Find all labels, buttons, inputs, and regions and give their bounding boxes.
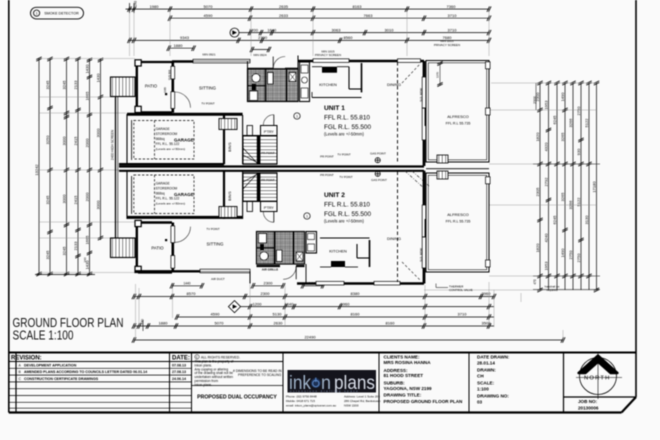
svg-text:DATE DRAWN:: DATE DRAWN:	[477, 355, 510, 360]
dimension line	[89, 59, 91, 275]
svg-text:1200: 1200	[249, 27, 259, 32]
svg-text:DINING: DINING	[387, 82, 401, 87]
dimension line	[66, 59, 68, 275]
svg-text:1980: 1980	[150, 4, 160, 9]
unit1 wet area hatched	[248, 69, 299, 102]
dimension line	[239, 32, 489, 34]
svg-text:3710: 3710	[458, 312, 468, 317]
svg-text:P'TRY: P'TRY	[264, 130, 275, 134]
svg-text:1430: 1430	[95, 73, 100, 83]
svg-text:1640: 1640	[285, 301, 295, 306]
svg-text:3266: 3266	[568, 200, 573, 210]
unit2 alfresco	[426, 173, 489, 272]
svg-text:3245: 3245	[45, 195, 50, 205]
svg-text:GARAGE: GARAGE	[156, 181, 171, 185]
svg-text:MRS ROSINA HANNA: MRS ROSINA HANNA	[384, 360, 432, 365]
svg-text:DRAWN:: DRAWN:	[477, 368, 496, 373]
svg-text:FFL R.L 55.735: FFL R.L 55.735	[446, 220, 471, 224]
svg-text:22490: 22490	[304, 335, 316, 340]
svg-text:2000: 2000	[84, 192, 89, 202]
dimension line	[588, 83, 590, 290]
unit2 entry wall + door	[172, 223, 175, 273]
svg-text:(Levels are +/-50mm): (Levels are +/-50mm)	[156, 202, 186, 206]
svg-text:Mobile: 0418 671 715: Mobile: 0418 671 715	[286, 399, 315, 403]
dimension line	[556, 83, 558, 290]
svg-text:2635: 2635	[279, 4, 289, 9]
svg-text:3245: 3245	[45, 80, 50, 90]
svg-text:FFL R.L. 55.122: FFL R.L. 55.122	[156, 197, 180, 201]
svg-text:CONSTRUCTION CERTIFICATE DRAWI: CONSTRUCTION CERTIFICATE DRAWINGS	[24, 377, 99, 381]
svg-text:2133: 2133	[73, 241, 78, 251]
small dim at alfresco left	[439, 63, 441, 85]
svg-text:TV POINT: TV POINT	[206, 227, 220, 231]
left boundary retaining wall	[115, 97, 117, 238]
svg-text:MIN 0924: MIN 0924	[253, 53, 266, 57]
svg-text:2750: 2750	[568, 250, 573, 260]
section marker bottom	[228, 301, 240, 313]
unit1 kitchen/dining top wall	[298, 60, 424, 62]
svg-text:3710: 3710	[448, 27, 458, 32]
svg-text:8163: 8163	[353, 4, 363, 9]
svg-text:DRAWING TITLE:: DRAWING TITLE:	[384, 393, 422, 398]
svg-text:Address: Level 1 Suite 203: Address: Level 1 Suite 203	[344, 395, 380, 399]
svg-text:5130: 5130	[273, 312, 283, 317]
svg-text:email: inkon_plans@optusnet.co: email: inkon_plans@optusnet.com.au	[286, 403, 336, 407]
svg-text:5960: 5960	[341, 301, 351, 306]
unit1 patio	[138, 61, 172, 63]
svg-text:FGL R.L. 55.500: FGL R.L. 55.500	[324, 211, 371, 218]
svg-text:6245: 6245	[552, 115, 557, 125]
svg-text:BIN/S: BIN/S	[228, 142, 232, 152]
svg-text:1820: 1820	[535, 243, 540, 253]
svg-text:2300: 2300	[261, 291, 271, 296]
svg-text:3130: 3130	[584, 215, 589, 225]
dimension line	[303, 285, 323, 287]
svg-text:3960: 3960	[482, 291, 492, 296]
unit2 patio	[136, 221, 172, 223]
svg-text:24.06.14: 24.06.14	[172, 377, 186, 381]
svg-text:3245: 3245	[61, 80, 66, 90]
svg-text:4320: 4320	[543, 142, 548, 152]
svg-text:3710: 3710	[448, 13, 458, 18]
svg-text:1: 1	[306, 215, 308, 219]
svg-text:UNIT 2: UNIT 2	[324, 192, 345, 199]
dimension line	[539, 83, 541, 290]
svg-text:3266: 3266	[568, 118, 573, 128]
dimension line	[134, 325, 494, 327]
svg-text:DATE:: DATE:	[172, 356, 190, 362]
svg-text:CONTROL VALVE: CONTROL VALVE	[449, 288, 473, 292]
svg-text:668sq: 668sq	[156, 192, 165, 196]
svg-text:5070: 5070	[215, 321, 225, 326]
svg-text:6245: 6245	[552, 215, 557, 225]
svg-text:27.08.13: 27.08.13	[172, 370, 186, 374]
svg-text:286 Chapel Rd, Bankstown: 286 Chapel Rd, Bankstown	[344, 399, 381, 403]
unit1 alfresco	[426, 61, 489, 163]
svg-text:2133: 2133	[73, 80, 78, 90]
svg-text:3000: 3000	[61, 194, 66, 204]
svg-text:FFL R.L. 55.810: FFL R.L. 55.810	[324, 202, 370, 209]
svg-text:SCALE 1:100: SCALE 1:100	[13, 328, 74, 343]
svg-text:1953: 1953	[543, 100, 548, 110]
unit2 wet area hatched	[257, 232, 305, 265]
svg-text:4590: 4590	[211, 312, 221, 317]
svg-text:YAGOONA, NSW 2199: YAGOONA, NSW 2199	[384, 386, 433, 391]
unit1 porch recess + front door	[247, 62, 249, 69]
svg-text:1820: 1820	[535, 132, 540, 142]
svg-text:STOREROOM: STOREROOM	[156, 132, 178, 136]
svg-text:ALFRESCO: ALFRESCO	[447, 114, 469, 119]
svg-text:7663: 7663	[364, 13, 374, 18]
svg-text:CLIENTS NAME:: CLIENTS NAME:	[384, 355, 420, 360]
svg-text:SITTING: SITTING	[199, 86, 217, 91]
svg-text:1:100: 1:100	[477, 387, 489, 392]
unit1 external steps	[111, 77, 136, 97]
unit2 1440 dim	[172, 285, 202, 287]
svg-text:07.08.13: 07.08.13	[172, 363, 186, 367]
dimension line	[169, 47, 194, 49]
svg-text:3010: 3010	[385, 27, 395, 32]
svg-text:SLD. WDW: SLD. WDW	[419, 88, 423, 102]
svg-text:PREFERENCE TO SCALING: PREFERENCE TO SCALING	[238, 373, 282, 377]
unit2 right wall	[423, 171, 426, 284]
svg-text:DINING: DINING	[387, 236, 401, 241]
bottom extension lines	[135, 284, 137, 341]
svg-text:3265: 3265	[560, 132, 565, 142]
svg-text:470: 470	[533, 279, 537, 285]
svg-text:3000: 3000	[95, 128, 100, 138]
svg-text:2300: 2300	[264, 281, 274, 286]
svg-text:SLD. WDW: SLD. WDW	[419, 248, 423, 262]
svg-text:(Levels are +/-50mm): (Levels are +/-50mm)	[324, 132, 365, 137]
svg-text:ALFRESCO: ALFRESCO	[447, 212, 469, 217]
unit2 bins	[242, 171, 244, 219]
svg-text:SCALE:: SCALE:	[477, 381, 495, 386]
svg-text:2415: 2415	[73, 136, 78, 146]
svg-text:930: 930	[576, 148, 581, 155]
dimension line	[596, 83, 598, 290]
svg-text:TV POINT: TV POINT	[337, 153, 351, 157]
svg-text:PRIVACY SCREEN: PRIVACY SCREEN	[434, 43, 460, 47]
svg-text:1665: 1665	[84, 235, 89, 245]
party wall double	[119, 165, 424, 167]
svg-text:240: 240	[83, 257, 87, 262]
unit1 right wall	[423, 61, 426, 166]
dimension line	[77, 59, 79, 275]
dimension line	[100, 59, 102, 241]
svg-text:1953: 1953	[543, 261, 548, 271]
sheet right border	[635, 0, 637, 397]
svg-text:GAS POINT: GAS POINT	[370, 152, 386, 156]
svg-text:2633: 2633	[279, 13, 289, 18]
svg-text:17180: 17180	[591, 181, 596, 193]
dimension line	[126, 8, 490, 10]
svg-text:SUBURB:: SUBURB:	[384, 381, 406, 386]
svg-text:MIN 0921: MIN 0921	[202, 53, 215, 57]
svg-text:1: 1	[296, 115, 298, 119]
dimension line	[580, 83, 582, 290]
svg-text:3250: 3250	[45, 135, 50, 145]
svg-text:1640: 1640	[267, 27, 277, 32]
section marker top	[230, 28, 239, 37]
svg-text:7360: 7360	[447, 4, 457, 9]
unit1 kitchen	[322, 67, 337, 73]
svg-text:P'TRY: P'TRY	[264, 206, 275, 210]
svg-text:2415: 2415	[73, 195, 78, 205]
svg-text:9343: 9343	[180, 35, 190, 40]
smoke detector legend	[31, 7, 84, 19]
unit2 porch + front door	[249, 271, 251, 283]
svg-text:8380: 8380	[351, 291, 361, 296]
svg-text:1085: 1085	[163, 87, 167, 93]
sheet left border	[8, 0, 10, 413]
svg-text:AIR GRILLE: AIR GRILLE	[262, 267, 278, 271]
title block frame	[9, 352, 636, 354]
svg-text:AMENDED PLANS ACCORDING TO COU: AMENDED PLANS ACCORDING TO COUNCILS LETT…	[24, 370, 147, 374]
svg-text:UNIT 1: UNIT 1	[324, 105, 345, 112]
svg-text:8570: 8570	[187, 291, 197, 296]
svg-text:3245: 3245	[45, 250, 50, 260]
dimension line	[239, 306, 494, 308]
svg-text:3063: 3063	[332, 27, 342, 32]
unit1 bins	[242, 115, 244, 164]
unit1 top wall	[172, 60, 250, 62]
svg-text:KITCHEN: KITCHEN	[329, 249, 347, 254]
svg-text:BIN/S: BIN/S	[228, 191, 232, 201]
svg-text:5070: 5070	[204, 4, 214, 9]
svg-text:1430: 1430	[84, 64, 89, 74]
svg-text:NSW 2200: NSW 2200	[344, 403, 359, 407]
svg-text:2300: 2300	[258, 35, 268, 40]
svg-text:20130006: 20130006	[578, 406, 599, 411]
svg-text:2300: 2300	[533, 96, 537, 104]
svg-text:FGL R.L. 55.500: FGL R.L. 55.500	[324, 124, 371, 131]
svg-text:PR POINT: PR POINT	[261, 178, 275, 182]
unit1 wc room	[300, 62, 310, 102]
north arrow	[580, 358, 617, 395]
svg-text:1665: 1665	[84, 91, 89, 101]
svg-text:GAS POINT: GAS POINT	[371, 178, 387, 182]
svg-text:2792: 2792	[543, 177, 548, 187]
dimension line	[170, 17, 489, 19]
svg-text:8160: 8160	[386, 321, 396, 326]
right extension lines	[491, 82, 597, 84]
svg-text:PATIO: PATIO	[145, 84, 158, 89]
unit2 kitchen	[331, 261, 345, 267]
svg-text:2400 HIGH SCREEN: 2400 HIGH SCREEN	[111, 129, 115, 160]
svg-text:DEVELOPMENT APPLICATION: DEVELOPMENT APPLICATION	[24, 363, 77, 367]
dimension line	[572, 83, 574, 290]
svg-text:1200: 1200	[253, 301, 263, 306]
svg-text:STOREROOM: STOREROOM	[156, 186, 178, 190]
dimension line	[548, 83, 550, 290]
dimension line	[134, 339, 563, 341]
svg-text:(Levels are +/-50mm): (Levels are +/-50mm)	[156, 147, 186, 151]
dimension line	[38, 59, 40, 275]
svg-text:1490: 1490	[560, 248, 565, 258]
svg-text:GARAGE: GARAGE	[156, 127, 171, 131]
svg-text:28.01.14: 28.01.14	[477, 361, 495, 366]
svg-text:1880: 1880	[159, 321, 169, 326]
dimension line	[134, 296, 494, 298]
svg-text:2630: 2630	[274, 321, 284, 326]
svg-text:8160: 8160	[351, 312, 361, 317]
svg-text:PRIVACY SCREEN: PRIVACY SCREEN	[315, 53, 341, 57]
dimension line	[128, 39, 489, 41]
svg-text:668sq: 668sq	[156, 137, 165, 141]
svg-text:5122: 5122	[584, 118, 589, 128]
unit1 entry wall + sidelight + door	[172, 62, 175, 113]
svg-text:4240: 4240	[543, 233, 548, 243]
svg-text:PR POINT: PR POINT	[320, 173, 334, 177]
dimension line	[253, 285, 283, 287]
svg-text:3000: 3000	[61, 136, 66, 146]
svg-text:SVD 806: SVD 806	[168, 69, 172, 80]
svg-text:SITTING: SITTING	[207, 242, 225, 247]
svg-text:13242: 13242	[34, 164, 39, 176]
svg-text:2750: 2750	[576, 106, 581, 116]
svg-text:3265: 3265	[560, 192, 565, 202]
svg-text:4590: 4590	[204, 13, 214, 18]
svg-text:1: 1	[36, 12, 38, 16]
svg-text:3500: 3500	[482, 321, 492, 326]
svg-text:03: 03	[477, 400, 483, 405]
svg-text:(Levels are +/-50mm): (Levels are +/-50mm)	[324, 219, 365, 224]
svg-text:SMOKE DETECTOR: SMOKE DETECTOR	[44, 12, 79, 16]
svg-text:1370: 1370	[436, 71, 440, 78]
unit2 external steps	[111, 238, 136, 258]
svg-text:PROPOSED GROUND FLOOR PLAN: PROPOSED GROUND FLOOR PLAN	[384, 399, 464, 404]
unit1 stair + pantry	[243, 136, 277, 165]
unit1 garage	[127, 113, 243, 116]
svg-text:8560: 8560	[344, 35, 354, 40]
svg-text:NORTH: NORTH	[584, 376, 611, 382]
svg-text:KITCHEN: KITCHEN	[319, 82, 337, 87]
svg-text:extensions drafting space: extensions drafting space	[290, 389, 359, 393]
svg-text:Phone: (02) 9750 8448: Phone: (02) 9750 8448	[286, 395, 317, 399]
svg-text:FFL R.L 55.735: FFL R.L 55.735	[446, 122, 471, 126]
svg-text:2305: 2305	[535, 187, 540, 197]
svg-text:2000: 2000	[84, 138, 89, 148]
svg-text:required: required	[546, 288, 557, 292]
svg-text:CH: CH	[477, 374, 484, 379]
svg-text:JOB NO:: JOB NO:	[578, 399, 598, 404]
revision table	[9, 361, 283, 363]
unit2 bottom wall	[297, 282, 424, 284]
dimension line	[177, 316, 494, 318]
svg-text:TV POINT: TV POINT	[201, 102, 215, 106]
svg-text:inkon plans.: inkon plans.	[195, 383, 213, 387]
svg-text:TV POINT: TV POINT	[339, 175, 353, 179]
svg-text:81 HOOD STREET: 81 HOOD STREET	[384, 373, 424, 378]
svg-text:1880: 1880	[174, 43, 184, 48]
svg-text:AIR DUCT: AIR DUCT	[211, 277, 225, 281]
svg-text:1440: 1440	[183, 281, 190, 285]
svg-text:PR POINT: PR POINT	[320, 155, 334, 159]
svg-text:REVISION:: REVISION:	[11, 356, 42, 362]
unit2 stair + pantry	[243, 173, 277, 202]
unit2 garage	[126, 171, 128, 219]
svg-text:3000: 3000	[95, 200, 100, 210]
svg-text:FFL R.L. 55.122: FFL R.L. 55.122	[156, 142, 180, 146]
unit2 wc room	[306, 232, 317, 254]
svg-text:PR POINT: PR POINT	[261, 151, 275, 155]
svg-text:1490: 1490	[560, 92, 565, 102]
dimension line	[49, 59, 51, 275]
inkon plans logo	[288, 370, 377, 393]
svg-text:2750: 2750	[576, 253, 581, 263]
svg-text:PATIO: PATIO	[151, 246, 164, 251]
left extension lines	[39, 58, 135, 60]
svg-text:PROPOSED DUAL OCCUPANCY: PROPOSED DUAL OCCUPANCY	[197, 395, 277, 401]
dimension line	[564, 83, 566, 290]
svg-text:DRAWING NO:: DRAWING NO:	[477, 394, 509, 399]
balcony over diagonals	[405, 171, 425, 189]
svg-text:3245: 3245	[61, 246, 66, 256]
svg-text:FFL R.L. 55.810: FFL R.L. 55.810	[324, 115, 370, 122]
